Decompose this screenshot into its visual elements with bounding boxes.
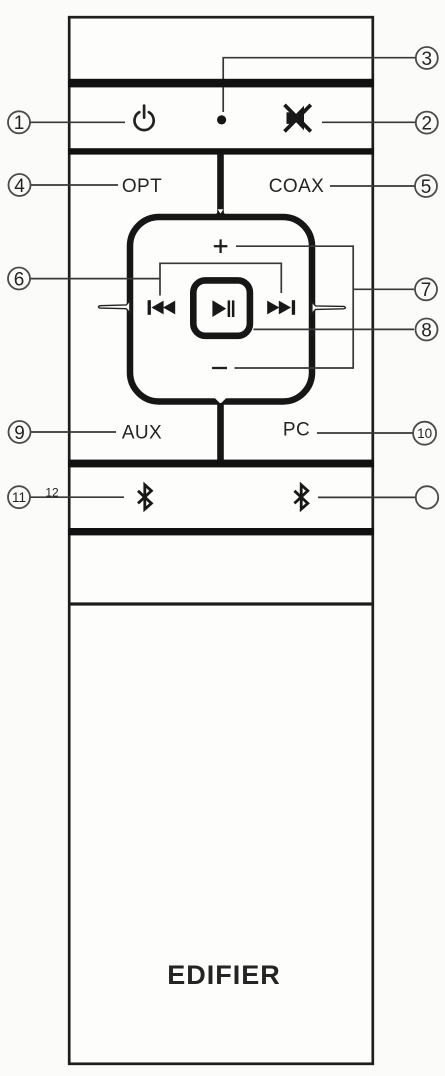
top divider bar	[68, 79, 374, 88]
callout 8 leader line	[254, 328, 415, 330]
callout circle 7	[415, 278, 437, 301]
center divider between OPT and COAX	[217, 154, 224, 216]
svg-text:6: 6	[14, 269, 25, 290]
bluetooth icon left	[138, 485, 151, 509]
play/pause icon	[212, 300, 234, 317]
svg-text:11: 11	[12, 490, 26, 505]
svg-text:AUX: AUX	[122, 423, 162, 444]
remote body outline	[69, 17, 373, 1064]
callout 9 leader line	[31, 431, 116, 433]
d-pad top notch	[218, 209, 224, 213]
LED dot	[217, 115, 226, 124]
callout circle 1	[8, 111, 30, 134]
svg-text:COAX: COAX	[269, 176, 324, 197]
svg-text:3: 3	[422, 49, 433, 70]
minus leader line to bracket	[235, 367, 354, 369]
svg-text:2: 2	[422, 113, 433, 134]
callout 2 leader line	[322, 121, 415, 123]
callout circle 12 (empty)	[416, 486, 438, 508]
svg-text:12: 12	[45, 486, 59, 500]
callout circle 6	[8, 268, 30, 291]
svg-text:PC: PC	[283, 420, 310, 441]
minus sign	[212, 367, 227, 369]
play/pause button outline	[193, 280, 250, 335]
callout circle 10	[413, 422, 436, 445]
callout circle 2	[416, 112, 438, 135]
divider bar under bluetooth row	[68, 528, 374, 535]
callout 11 leader line	[30, 496, 124, 498]
bluetooth icon right	[294, 485, 307, 509]
d-pad bottom notch	[214, 397, 227, 404]
svg-text:1: 1	[14, 113, 25, 134]
right ridge marker	[312, 302, 346, 314]
divider bar under AUX/PC row	[68, 460, 374, 468]
svg-text:7: 7	[421, 280, 432, 301]
mute icon	[285, 105, 311, 132]
power button icon	[135, 106, 154, 131]
callout circle 9	[9, 421, 31, 444]
callout 5 leader line	[330, 185, 415, 187]
svg-text:5: 5	[421, 177, 432, 198]
plus sign	[214, 239, 228, 253]
bracket over skip buttons	[160, 263, 281, 295]
thin line above lower body	[69, 602, 374, 605]
left ridge marker	[98, 301, 129, 313]
callout 4 leader line	[31, 184, 118, 186]
svg-text:OPT: OPT	[122, 176, 162, 197]
callout circle 5	[415, 175, 437, 198]
divider bar under power row	[68, 148, 374, 154]
callout circle 11	[8, 486, 30, 508]
callout 12 leader line	[318, 496, 415, 498]
callout 1 leader line	[30, 121, 125, 123]
callout circle 8	[416, 319, 438, 342]
right bracket vertical	[352, 245, 354, 368]
callout 7 leader line	[353, 288, 414, 290]
next-track icon	[267, 300, 295, 315]
svg-text:EDIFIER: EDIFIER	[167, 960, 281, 990]
callout 6 leader line	[30, 278, 161, 280]
callout 3 leader line	[223, 58, 415, 112]
d-pad ring outline	[130, 217, 312, 402]
svg-text:10: 10	[417, 426, 432, 441]
callout circle 3	[416, 47, 438, 70]
divider foot bulge	[215, 210, 227, 216]
svg-text:9: 9	[14, 423, 25, 444]
svg-text:4: 4	[14, 176, 25, 197]
callout 10 leader line	[317, 432, 413, 434]
plus leader line to bracket	[236, 245, 353, 247]
svg-text:8: 8	[421, 320, 432, 341]
callout circle 4	[9, 174, 31, 197]
d-pad bottom stem	[217, 403, 224, 461]
previous-track icon	[148, 300, 176, 315]
